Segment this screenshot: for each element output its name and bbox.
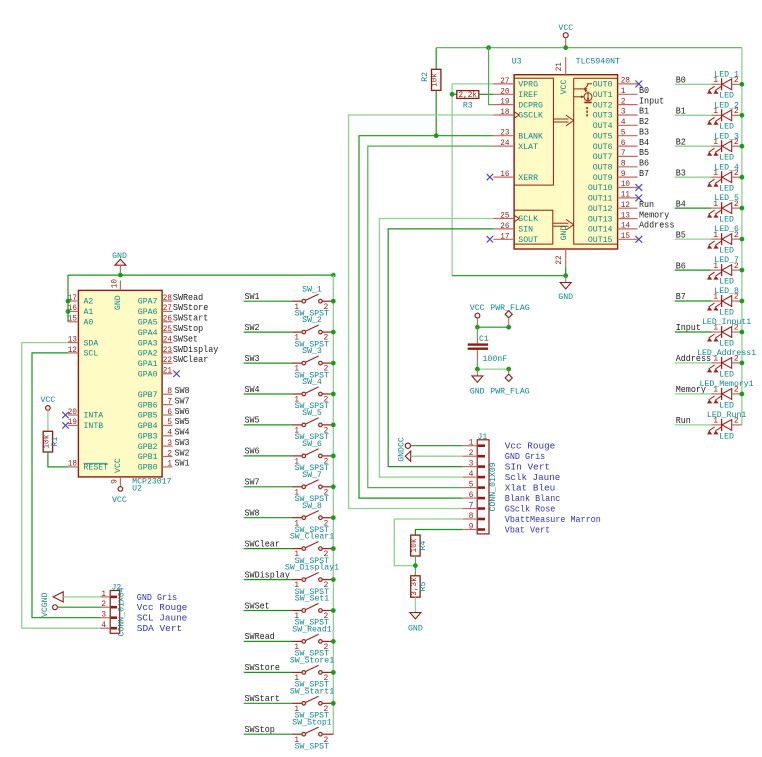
svg-text:15: 15 [68,315,77,324]
svg-text:10: 10 [621,180,630,189]
power flag PWR_FLAG (top) [490,304,530,327]
LED LED_Run1 [707,411,747,441]
svg-text:VCC: VCC [560,79,569,94]
wire SW4 to switch [244,393,292,395]
svg-text:GND Gris: GND Gris [505,452,545,462]
svg-text:21: 21 [163,367,172,376]
junction R3 left [450,92,455,97]
wire Input to LED [675,331,712,333]
junction SW7/bus [331,484,336,489]
junction C1 bottom left [475,367,480,372]
wire R4 to R5 [414,556,416,576]
U2 pin 7 (GPB6) [138,397,173,410]
svg-text:GNDCC: GNDCC [397,437,406,462]
svg-text:VCC: VCC [41,396,56,405]
svg-text:CONN_01X04: CONN_01X04 [118,587,127,636]
svg-text:SWStop: SWStop [173,323,203,334]
svg-text:SW_8: SW_8 [302,502,322,511]
junction SWDisplay/bus [331,577,336,582]
node SWRead label [245,631,275,642]
U3 pin 23 (BLANK) [493,129,543,142]
svg-text:1: 1 [621,87,626,96]
wire net Sclk (U3.25 to J1.4) [379,219,493,478]
svg-text:5: 5 [469,481,474,490]
svg-text:U2: U2 [132,485,142,494]
svg-text:SW_1: SW_1 [302,285,322,294]
wire B6 to LED [675,269,712,271]
svg-text:3: 3 [167,439,172,448]
wire GND net under U3 [452,275,566,277]
svg-text:SIn Vert: SIn Vert [505,463,550,473]
svg-text:GPB4: GPB4 [138,422,158,431]
node VCGND label (J2) [41,592,50,617]
svg-text:Input: Input [639,95,664,106]
svg-text:Sclk Jaune: Sclk Jaune [505,473,561,483]
switch SW_4 SW_SPST [292,378,333,411]
svg-text:LED: LED [719,216,734,225]
svg-text:10: 10 [110,279,119,288]
node B5 label (LED) [676,229,686,240]
svg-text:B5: B5 [639,147,649,158]
LED LED_Input1 [702,318,751,348]
power symbol VCC (R1) [41,396,56,431]
svg-text:1: 1 [101,590,106,599]
wire B5 to LED [675,238,712,240]
svg-text:OUT10: OUT10 [588,184,613,193]
text J2 pin2 color note Vcc [137,603,188,613]
svg-text:6: 6 [469,491,474,500]
svg-text:10k: 10k [410,538,419,552]
U2 pin 28 (GPA7) [138,294,173,307]
svg-text:3: 3 [101,611,106,620]
junction B3/LED bus [740,175,745,180]
junction B1/LED bus [740,113,745,118]
junction C1 bottom right [506,367,511,372]
svg-text:OUT7: OUT7 [593,153,613,162]
switch SW_2 SW_SPST [292,316,333,349]
node B6 (U3 pin label) [639,158,649,169]
op-amp U3 body TLC5940NT [514,75,618,249]
svg-text:GSCLK: GSCLK [518,112,543,121]
svg-text:SW_Display1: SW_Display1 [285,564,339,573]
connector J2 CONN_01X04 [101,583,127,636]
power symbol GND (C1) [470,369,485,396]
svg-text:GND Gris: GND Gris [137,593,177,603]
U3 internal bus arrow (top) [553,115,573,126]
svg-text:5: 5 [621,128,626,137]
U2 pin 10 (GND top) [110,279,120,291]
junction B4/LED bus [740,206,745,211]
node B4 (U3 pin label) [639,137,649,148]
U3 pin 14 (OUT14) [588,222,638,235]
svg-text:GPA2: GPA2 [138,350,158,359]
svg-text:BLANK: BLANK [518,132,543,141]
node SWRead (U2 pin label) [173,292,203,303]
svg-text:OUT13: OUT13 [588,215,613,224]
junction SWStart/bus [331,701,336,706]
wire VPRG to GND vertical [452,84,493,276]
node Input label (LED) [676,322,701,333]
svg-text:Vbat Vert: Vbat Vert [505,525,550,535]
switch SW_3 SW_SPST [292,347,333,380]
wire C1 bottom lead [476,350,478,369]
resistor R4 10k [410,535,428,556]
switch SW_8 SW_SPST [292,502,333,535]
node SW1 (U2 pin label) [175,458,190,469]
node B4 label (LED) [676,198,686,209]
U3 pin 20 (IREF) [493,87,538,100]
U3 pin 8 (OUT8) [593,160,638,173]
text J1 pin1 color note Vcc [505,442,556,452]
U2 pin 6 (GPB5) [138,408,173,421]
op-amp U2 body MCP23017 [78,290,162,477]
junction VCC/DCPRG [486,45,491,50]
LED LED_Address1 [697,349,756,379]
U3 internal VCC label [560,79,569,94]
U3 pin 11 (OUT11) [588,191,642,204]
svg-text:SW8: SW8 [175,385,190,396]
node B1 label (LED) [676,106,686,117]
junction SWClear/bus [331,546,336,551]
svg-text:27: 27 [163,304,172,313]
svg-text:B2: B2 [639,116,649,127]
svg-text:SWStart: SWStart [245,693,280,704]
switch SW_7 SW_SPST [292,471,333,504]
U2 value MCP23017 [132,478,172,487]
wire SWStart to switch [244,702,292,704]
svg-text:SIN: SIN [518,226,533,235]
svg-text:LED: LED [719,339,734,348]
switch SW_Clear1 SW_SPST [290,533,334,566]
U3 pin 18 (GSCLK) [493,108,543,121]
node Address label (LED) [676,353,711,364]
svg-text:SOUT: SOUT [518,236,538,245]
svg-text:OUT9: OUT9 [593,174,613,183]
junction Address/LED bus [740,361,745,366]
svg-text:24: 24 [163,335,172,344]
svg-text:22: 22 [555,255,564,264]
power flag PWR_FLAG (bottom) [490,369,530,396]
U3 pin 9 (OUT9) [593,170,638,183]
svg-text:28: 28 [163,294,172,303]
svg-text:SW7: SW7 [245,477,260,488]
node SWSet (U2 pin label) [173,333,198,344]
node Memory label (LED) [676,384,707,395]
U2 pin 20 (INTA) [62,408,103,421]
wire net Blank (U3.23 to J1.6) [359,136,493,498]
wire SW8 to switch [244,517,292,519]
junction C1 top right [506,325,511,330]
svg-text:GPB3: GPB3 [138,433,158,442]
svg-text:OUT12: OUT12 [588,205,613,214]
wire switch bus vertical [332,275,334,734]
LED LED_8 [707,287,742,317]
capacitor C1 100nF [468,335,508,364]
svg-text:GPB7: GPB7 [138,391,158,400]
node SWStop label [245,724,275,735]
switch SW_Read1 SW_SPST [292,626,333,659]
text J1 pin8 color note VbattMeasure [505,515,601,525]
U2 pin 19 (INTB) [62,418,103,431]
U2 internal GND label [114,295,123,310]
svg-text:Address: Address [639,220,674,231]
wire B1 to LED [675,114,712,116]
U3 pin 16 (XERR) [487,170,538,183]
junction SWSet/bus [331,608,336,613]
U3 pin 5 (OUT5) [593,128,638,141]
U3 pin 1 (OUT1) [593,87,638,100]
svg-text:SCLK: SCLK [518,215,538,224]
svg-text:4: 4 [469,470,474,479]
svg-text:XLAT: XLAT [518,143,538,152]
svg-text:VCC: VCC [558,24,573,33]
svg-text:4: 4 [621,118,626,127]
svg-text:GPB6: GPB6 [138,401,158,410]
wire net Xlat (U3.24 to J1.5) [368,146,494,488]
node Run (U3 pin label) [639,199,654,210]
svg-text:9: 9 [621,170,626,179]
svg-text:VbattMeasure Marron: VbattMeasure Marron [505,515,601,525]
wire SW6 to switch [244,455,292,457]
svg-text:SW_2: SW_2 [302,316,322,325]
node SW2 label [245,322,260,333]
svg-text:Blank Blanc: Blank Blanc [505,494,561,504]
svg-text:SW_Store1: SW_Store1 [290,657,334,666]
svg-text:VCGND: VCGND [41,592,50,617]
svg-text:LED_Address1: LED_Address1 [697,349,756,358]
svg-text:VCC: VCC [112,496,127,505]
resistor R3 2,2k [457,91,479,111]
node B3 (U3 pin label) [639,126,649,137]
text J1 pin7 color note GSclk [505,504,556,514]
svg-text:23: 23 [163,346,172,355]
resistor R5 3,3k [410,576,428,597]
svg-text:18: 18 [68,460,77,469]
node SW7 label [245,477,260,488]
LED LED_7 [707,256,742,286]
node B5 (U3 pin label) [639,147,649,158]
svg-text:OUT4: OUT4 [593,122,613,131]
svg-text:SW7: SW7 [175,395,190,406]
text J2 pin3 color note SCL [137,614,188,624]
svg-text:SW_6: SW_6 [302,440,322,449]
svg-text:LED: LED [719,154,734,163]
power symbol GND (R5) [408,613,423,634]
node SW5 label [245,415,260,426]
svg-text:SWStart: SWStart [173,313,208,324]
junction C1 top left [475,325,480,330]
svg-text:2,2k: 2,2k [459,91,478,100]
power symbol VCC (C1) [470,304,485,327]
svg-text:13: 13 [68,335,77,344]
svg-text:GPB0: GPB0 [138,464,158,473]
svg-text:3: 3 [621,108,626,117]
svg-text:LED: LED [719,247,734,256]
svg-text:SW8: SW8 [245,508,260,519]
svg-text:LED: LED [719,308,734,317]
svg-text:16: 16 [500,170,509,179]
svg-text:SWStore: SWStore [245,662,281,673]
svg-text:SW_5: SW_5 [302,409,322,418]
node B1 (U3 pin label) [639,106,649,117]
svg-text:2: 2 [621,97,626,106]
node SW6 (U2 pin label) [175,406,190,417]
svg-text:SW_Start1: SW_Start1 [290,687,334,696]
U2 pin 22 (GPA1) [138,356,173,369]
svg-text:GND: GND [560,225,569,240]
svg-text:SW_Set1: SW_Set1 [295,595,330,604]
svg-text:SWClear: SWClear [245,538,280,549]
svg-text:R3: R3 [463,102,473,111]
U2 pin 2 (GPB1) [138,449,173,462]
node SW1 label [245,291,260,302]
junction B5/LED bus [740,237,745,242]
svg-text:GPB5: GPB5 [138,412,158,421]
svg-text:LED_8: LED_8 [714,287,739,296]
svg-text:SW_Clear1: SW_Clear1 [290,533,334,542]
connector J1 CONN_01X09 [463,433,498,534]
wire R5 to GND [414,597,416,612]
svg-text:20: 20 [68,408,77,417]
svg-text:OUT15: OUT15 [588,236,613,245]
svg-text:LED_Run1: LED_Run1 [707,411,747,420]
svg-text:17: 17 [500,232,509,241]
switch SW_Store1 SW_SPST [290,657,334,690]
U3 pin 2 (OUT2) [593,97,638,110]
node SW3 label [245,353,260,364]
svg-text:INTA: INTA [84,412,104,421]
wire Address to LED [675,362,712,364]
U3 pin 4 (OUT4) [593,118,638,131]
wire GND to PWR_FLAG (bottom) [477,368,508,370]
svg-text:SW6: SW6 [175,406,190,417]
svg-text:OUT1: OUT1 [593,91,613,100]
svg-text:GND: GND [408,625,423,634]
wire B7 to LED [675,300,712,302]
junction VCC/pin21 [563,45,568,50]
wire R3 right to IREF [479,93,494,95]
svg-text:2: 2 [167,449,172,458]
wire B0 to LED [675,83,712,85]
svg-text:A1: A1 [84,308,94,317]
node GNDCC label (J1) [397,437,406,462]
node SW6 label [245,446,260,457]
svg-text:SW_4: SW_4 [302,378,322,387]
U3 pin 17 (SOUT) [487,232,538,245]
junction SWStore/bus [331,670,336,675]
svg-text:SDA Vert: SDA Vert [137,624,182,634]
svg-text:12: 12 [621,201,630,210]
U3 pin 24 (XLAT) [493,139,538,152]
U2 pin 16 (A1) [68,304,94,317]
U2 pin 15 (A0) [68,315,94,328]
junction Memory/LED bus [740,392,745,397]
node Address (U3 pin label) [639,220,674,231]
svg-text:1: 1 [469,439,474,448]
svg-text:LED_1: LED_1 [714,70,739,79]
svg-text:100nF: 100nF [483,355,508,364]
svg-text:A0: A0 [84,319,94,328]
svg-text:SW_SPST: SW_SPST [295,742,330,751]
U3 pin 6 (OUT6) [593,139,638,152]
power symbol VCC (top) [558,24,573,48]
svg-text:OUT14: OUT14 [588,226,613,235]
text J1 pin9 color note Vbat [505,525,550,535]
switch SW_Stop1 SW_SPST [292,718,333,751]
svg-text:LED: LED [719,432,734,441]
svg-text:SW_3: SW_3 [302,347,322,356]
wire Memory to LED [675,393,712,395]
svg-text:Vcc Rouge: Vcc Rouge [505,442,556,452]
text J1 pin4 color note Sclk [505,473,561,483]
svg-text:CONN_01X09: CONN_01X09 [489,462,498,511]
svg-text:SW5: SW5 [245,415,260,426]
LED LED_5 [707,194,742,224]
svg-text:C1: C1 [479,335,489,344]
svg-text:SCL: SCL [84,350,99,359]
svg-text:LED_4: LED_4 [714,163,739,172]
svg-text:OUT11: OUT11 [588,195,613,204]
LED LED_Memory1 [700,380,754,410]
svg-text:GPA5: GPA5 [138,319,158,328]
U3 pin 3 (OUT3) [593,108,638,121]
svg-text:7: 7 [167,397,172,406]
svg-text:SW3: SW3 [245,353,260,364]
svg-text:OUT8: OUT8 [593,164,613,173]
U3 value TLC5940NT [576,58,620,67]
node SWClear label [245,538,280,549]
svg-text:R2: R2 [421,72,430,82]
junction SW1/bus [331,299,336,304]
svg-text:SWSet: SWSet [173,333,198,344]
wire SW5 to switch [244,424,292,426]
LED LED_2 [707,101,742,131]
U3 pin 22 (GND bottom) [555,249,566,267]
wire SW7 to switch [244,486,292,488]
svg-text:4: 4 [167,429,172,438]
node Memory (U3 pin label) [639,209,670,220]
wire net Vbat (J1.9 to R4) [415,530,462,536]
node SW3 (U2 pin label) [175,437,190,448]
U2 pin 21 (GPA0) [138,367,180,380]
node SW2 (U2 pin label) [175,447,190,458]
svg-text:R4: R4 [419,540,428,550]
svg-text:20: 20 [500,87,509,96]
wire B4 to LED [675,207,712,209]
node Run label (LED) [676,415,691,426]
svg-text:7: 7 [621,149,626,158]
junction SW8/bus [331,515,336,520]
node SWSet label [245,600,270,611]
svg-text:LED_3: LED_3 [714,132,739,141]
node SW4 label [245,384,260,395]
U3 pin 26 (SIN) [493,222,533,235]
node B6 label (LED) [676,260,686,271]
svg-text:19: 19 [500,98,509,107]
svg-text:LED_2: LED_2 [714,101,739,110]
svg-text:SW6: SW6 [245,446,260,457]
svg-text:SWRead: SWRead [245,631,275,642]
wire R2 bottom to BLANK net [435,90,437,135]
text J1 pin2 color note GND [505,452,545,462]
junction SW2/bus [331,330,336,335]
svg-text:SW2: SW2 [245,322,260,333]
svg-text:26: 26 [163,315,172,324]
U3 pin 15 (OUT15) [588,232,642,245]
wire net SCL (U2.12 to J2.3) [32,353,101,618]
wire net SDA (U2.13 to J2.4) [22,343,101,629]
text J2 pin1 color note GND [137,593,177,603]
